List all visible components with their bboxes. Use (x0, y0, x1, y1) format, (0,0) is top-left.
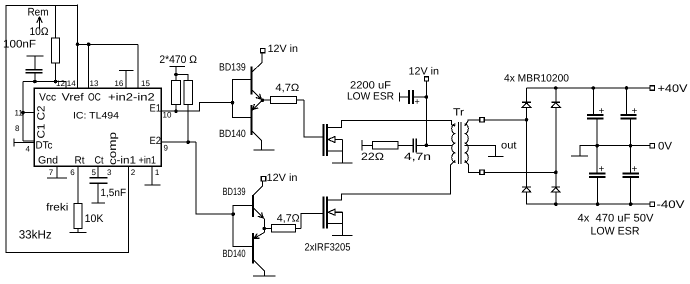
svg-text:2xIRF3205: 2xIRF3205 (305, 242, 351, 254)
svg-text:Rem: Rem (28, 7, 49, 19)
junction dot right rail -40V (554, 202, 558, 206)
transistor Q2 BD140 base bar (251, 105, 253, 135)
transistor Q4 collector (253, 260, 265, 277)
svg-text:4x MBR10200: 4x MBR10200 (504, 72, 569, 84)
svg-text:out: out (501, 140, 517, 152)
svg-text:E2: E2 (150, 135, 162, 147)
transistor Q3 emitter with arrow (253, 208, 264, 220)
junction dot right rail +40V (554, 86, 558, 90)
svg-text:Gnd: Gnd (38, 154, 58, 166)
wire M1 IRF3205 upper source to ground (342, 140, 344, 164)
junction dot cap4 bottom (629, 202, 633, 206)
junction dot emitters driver2 (263, 227, 267, 231)
wire secondary center tap out (465, 145, 496, 156)
transistor M2 IRF3205 lower channel bar (326, 197, 328, 229)
transistor Q1 emitter with arrow (252, 90, 263, 101)
diode D1 MBR10200 (522, 101, 531, 103)
wire Vcc rail to pin 12 (23, 82, 66, 89)
svg-text:LOW ESR: LOW ESR (347, 91, 394, 103)
470Ω pair top terminal bar (170, 66, 186, 68)
ground bar driver1 (254, 149, 275, 151)
svg-text:1,5nF: 1,5nF (100, 187, 126, 199)
svg-text:+in2-in2: +in2-in2 (108, 91, 155, 103)
svg-text:Tr: Tr (453, 107, 465, 119)
junction dot emitters driver1 (261, 98, 265, 102)
resistor R 22Ω (362, 144, 373, 146)
transistor M2 IRF3205 lower source stub (327, 223, 343, 225)
wire drain M2 to primary bottom (342, 165, 451, 200)
resistor R 4,7 ohm driver2 (264, 228, 271, 230)
ground bar M1 IRF3205 upper (332, 162, 353, 164)
wire 12V vertical (426, 81, 428, 145)
svg-text:C1 C2: C1 C2 (36, 105, 48, 138)
svg-text:12V in: 12V in (268, 43, 299, 55)
svg-text:12V in: 12V in (267, 172, 298, 184)
junction dot secondary bottom-rail (554, 171, 558, 175)
transistor Q3 BD139 base bar (252, 195, 254, 217)
svg-text:2*470 Ω: 2*470 Ω (159, 54, 197, 66)
wire pin15 drop (137, 44, 139, 88)
junction dot cap3 bottom (596, 202, 600, 206)
pin1 ground bar (151, 166, 153, 185)
junction dot snubber-tap (425, 144, 429, 148)
junction dot secondary top-rail (525, 118, 529, 122)
wire secondary bottom lead (469, 165, 556, 173)
svg-text:4x 470 uF 50V: 4x 470 uF 50V (578, 212, 655, 224)
transistor M1 IRF3205 upper drain stub (327, 122, 342, 128)
capacitor C 1,5nF (90, 177, 108, 179)
svg-text:11: 11 (15, 108, 24, 117)
terminal square 12V driver1 (261, 48, 265, 52)
junction dot cap2 top (625, 86, 629, 90)
wire Vref to OC and -in2 (78, 43, 139, 45)
resistor R 470Ω right (184, 80, 193, 104)
svg-text:4,7n: 4,7n (404, 151, 431, 163)
svg-text:+in1: +in1 (139, 154, 157, 166)
junction dot 10Ω-Vcc (54, 80, 58, 84)
wire pin5 Ct to 1,5nF (97, 166, 99, 178)
svg-text:14: 14 (67, 79, 76, 88)
transistor Q1 BD139 base bar (251, 67, 253, 95)
transistor Q2 emitter with arrow (252, 100, 263, 111)
svg-text:Rt: Rt (75, 154, 85, 166)
svg-text:12V in: 12V in (409, 65, 440, 77)
transistor M2 IRF3205 lower gate bar (323, 197, 325, 229)
svg-text:9: 9 (164, 144, 169, 153)
svg-text:BD139: BD139 (219, 62, 246, 74)
transistor Q4 BD140 base bar (252, 233, 254, 264)
ground bar below 10K (77, 229, 79, 233)
transistor Q3 collector to 12V (253, 181, 263, 196)
transistor M1 IRF3205 upper body arrow (328, 137, 335, 143)
svg-text:22Ω: 22Ω (361, 151, 384, 163)
junction dot pin14-wire (76, 43, 80, 47)
svg-text:4,7Ω: 4,7Ω (275, 82, 299, 94)
transformer core (457, 122, 459, 164)
junction dot base driver1 (231, 101, 235, 105)
ground bar driver2 (253, 275, 276, 277)
capacitor C 470uF #1 (+40/0) (592, 88, 594, 115)
terminal square 12V in mid (424, 77, 428, 81)
wire pin13 drop (88, 44, 90, 88)
terminal square -40V (650, 202, 655, 207)
svg-text:+: + (632, 106, 638, 117)
transistor Q2 collector (252, 131, 262, 151)
diode D4 MBR10200 (552, 186, 561, 188)
junction dot cap1 top (592, 86, 596, 90)
svg-text:BD139: BD139 (223, 186, 246, 198)
svg-text:OC: OC (88, 91, 101, 103)
wire drain M1 to primary top (342, 121, 452, 126)
terminal square 12V driver2 (261, 177, 265, 181)
junction dot 2200uF (425, 95, 429, 99)
ground bar 0V (571, 155, 588, 157)
wire 0V line (580, 146, 651, 156)
ground bar out tap (488, 156, 504, 158)
junction dot pin11 (21, 111, 25, 115)
svg-text:BD140: BD140 (219, 128, 246, 140)
resistor R 470Ω left (175, 75, 177, 81)
svg-text:-40V: -40V (657, 199, 686, 211)
svg-text:10: 10 (163, 110, 172, 119)
svg-text:12: 12 (56, 79, 65, 88)
svg-text:0V: 0V (658, 141, 673, 153)
transistor M1 IRF3205 upper gate bar (323, 124, 325, 156)
junction dot cap2 bottom (629, 144, 633, 148)
wire pin6 Rt to 10K (77, 166, 79, 204)
svg-text:+: + (632, 164, 638, 175)
junction dot 470 pair (174, 73, 178, 77)
resistor R 10Ω vertical (55, 5, 57, 38)
svg-text:+: + (599, 164, 605, 175)
svg-text:15: 15 (141, 79, 150, 88)
junction dot pin13 branch (87, 43, 91, 47)
resistor R 4,7 ohm driver1 (263, 99, 271, 101)
transistor M1 IRF3205 upper channel bar (326, 124, 328, 156)
svg-text:LOW ESR: LOW ESR (591, 226, 640, 238)
capacitor C 100nF with open terminal bar (27, 55, 44, 57)
wire base bracket driver1 (233, 80, 252, 118)
junction dot 470L-E1 (174, 109, 178, 113)
transistor M1 IRF3205 upper source stub (327, 150, 343, 152)
wire E1 pin10 (161, 103, 233, 112)
svg-text:freki: freki (46, 202, 68, 214)
wire to right 470Ω top (176, 75, 188, 81)
pin16 open terminal (125, 71, 127, 89)
capacitor C 4,7n (412, 139, 414, 153)
svg-text:Vcc: Vcc (39, 91, 56, 103)
wire pin 11 stub (23, 112, 34, 114)
terminal square 0V (650, 143, 655, 148)
wire Vcc down to C1 C2 pins (22, 82, 24, 142)
wire secondary top lead (468, 120, 527, 121)
wire E2 pin9 (161, 141, 196, 143)
arrow up toward Rem (37, 17, 42, 29)
svg-text:4: 4 (26, 145, 31, 154)
terminal square secondary top (480, 118, 485, 123)
svg-text:E1: E1 (150, 103, 162, 115)
svg-text:7: 7 (49, 168, 54, 177)
wire right rectifier rail (555, 88, 557, 102)
wire pin14 vertical from box top (77, 5, 79, 89)
svg-text:33kHz: 33kHz (19, 228, 52, 242)
op-amp U1 IC TL494 box (34, 88, 161, 166)
svg-text:Ct: Ct (95, 154, 104, 166)
svg-text:13: 13 (90, 79, 99, 88)
svg-text:2: 2 (131, 168, 136, 177)
transistor Q1 collector to 12V (252, 53, 263, 73)
22Ω open terminal bar (361, 140, 363, 151)
transformer Tr primary winding (452, 124, 456, 162)
capacitor C 470uF #2 (+40/0) (626, 88, 628, 115)
wire left rectifier rail (526, 88, 528, 102)
pin7 ground bar (56, 166, 58, 178)
junction dot 100nF-Vcc (33, 80, 37, 84)
ground bar M2 IRF3205 lower (332, 235, 353, 237)
svg-text:6: 6 (70, 168, 75, 177)
transistor M2 IRF3205 lower body arrow (328, 209, 335, 215)
svg-text:1: 1 (155, 168, 160, 177)
transistor Q4 emitter with arrow (263, 229, 265, 233)
svg-text:IC: TL494: IC: TL494 (73, 110, 119, 121)
wire pin 8 stub (23, 140, 34, 142)
diode D2 MBR10200 (522, 186, 531, 188)
svg-text:3: 3 (107, 168, 112, 177)
wire Rem/Vref feedback loop (box outline) (6, 5, 129, 252)
svg-text:8: 8 (15, 124, 20, 133)
capacitor C 470uF #3 (0/-40) (596, 146, 598, 174)
wire gate feed upper MOSFET (304, 100, 324, 137)
junction dot 470R-E2 (186, 140, 190, 144)
transformer Tr secondary winding (465, 124, 469, 162)
wire primary center tap (426, 144, 452, 146)
svg-text:10Ω: 10Ω (30, 26, 49, 38)
wire +40V line (527, 87, 652, 89)
capacitor C 470uF #4 (0/-40) (630, 146, 632, 174)
junction dot base driver2 (231, 212, 235, 216)
svg-text:5: 5 (92, 168, 97, 177)
capacitor C 2200uF with terminal bar (399, 92, 401, 101)
svg-text:+: + (415, 97, 420, 107)
resistor R freki 10K (74, 204, 82, 229)
svg-text:10K: 10K (85, 213, 104, 225)
svg-text:4,7Ω: 4,7Ω (277, 213, 300, 225)
svg-text:+: + (599, 106, 605, 117)
wire M2 IRF3205 lower source to ground (342, 212, 344, 236)
svg-text:-in1: -in1 (117, 154, 137, 166)
junction dot cap1 bottom (595, 144, 599, 148)
wire DTc pin4 stub with terminal bar (14, 142, 34, 144)
svg-text:+40V: +40V (658, 83, 689, 95)
terminal square secondary bottom (480, 170, 485, 175)
transistor M2 IRF3205 lower drain stub (327, 194, 342, 200)
wire base bracket driver2 (233, 206, 253, 247)
terminal square +40V (650, 86, 655, 91)
diode D3 MBR10200 (552, 101, 561, 103)
svg-text:BD140: BD140 (223, 248, 246, 260)
svg-text:DTc: DTc (36, 139, 53, 151)
wire gate feed lower MOSFET (301, 214, 323, 229)
svg-text:Vref: Vref (62, 91, 84, 103)
svg-text:100nF: 100nF (3, 39, 36, 51)
svg-text:16: 16 (114, 79, 123, 88)
